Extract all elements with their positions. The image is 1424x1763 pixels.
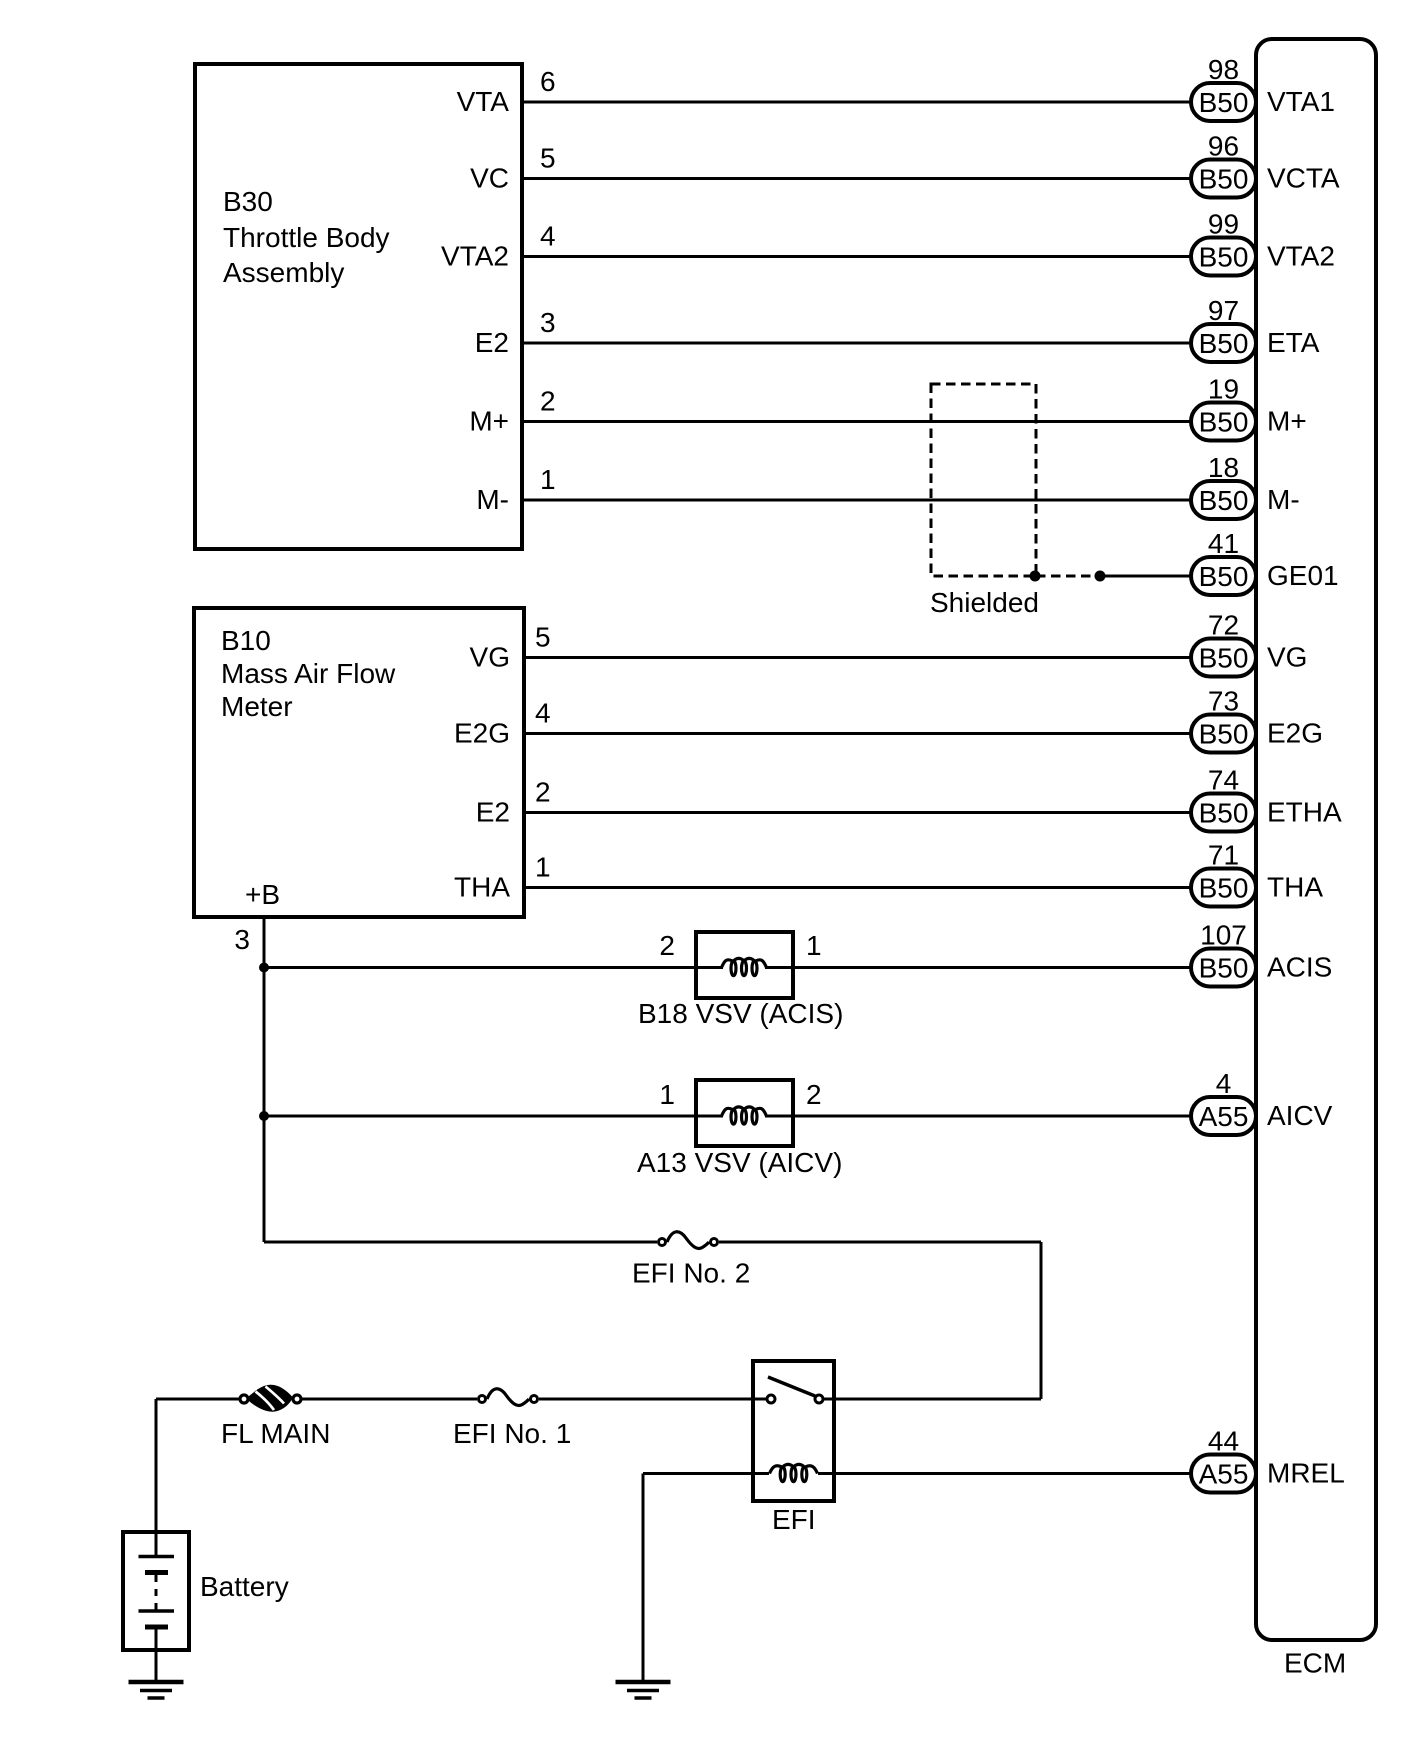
svg-text:ECM: ECM xyxy=(1284,1648,1346,1679)
svg-text:VTA1: VTA1 xyxy=(1267,86,1335,117)
wire B10 THA pin 1 to ECM xyxy=(524,886,1191,889)
svg-text:B10: B10 xyxy=(221,625,271,656)
ECM connector B50 pin 19 (M+) xyxy=(1191,403,1256,441)
ground (battery) xyxy=(129,1680,184,1685)
EFI relay box xyxy=(753,1361,834,1501)
svg-text:96: 96 xyxy=(1208,131,1239,162)
svg-text:B50: B50 xyxy=(1199,561,1249,592)
svg-text:Battery: Battery xyxy=(200,1571,289,1602)
wire B10 VG pin 5 to ECM xyxy=(524,656,1191,659)
wire from +B pin down to EFI No.2 fuse line xyxy=(263,917,266,1242)
ECM connector B50 pin 71 (THA) xyxy=(1191,869,1256,907)
svg-text:6: 6 xyxy=(540,66,556,97)
svg-text:71: 71 xyxy=(1208,840,1239,871)
svg-text:4: 4 xyxy=(1216,1068,1232,1099)
B30 Throttle Body Assembly box xyxy=(195,64,522,549)
ground (EFI relay) xyxy=(616,1680,671,1685)
wire B10 E2G pin 4 to ECM xyxy=(524,732,1191,735)
ECM connector B50 pin 99 (VTA2) xyxy=(1191,238,1256,276)
svg-text:73: 73 xyxy=(1208,686,1239,717)
battery plate short 1 xyxy=(145,1570,168,1575)
svg-text:E2G: E2G xyxy=(454,718,510,749)
svg-text:B50: B50 xyxy=(1199,164,1249,195)
svg-text:EFI No. 1: EFI No. 1 xyxy=(453,1418,571,1449)
svg-text:M+: M+ xyxy=(1267,406,1307,437)
svg-text:VTA2: VTA2 xyxy=(441,241,509,272)
svg-text:107: 107 xyxy=(1200,920,1247,951)
svg-text:2: 2 xyxy=(659,930,675,961)
relay coil xyxy=(770,1466,782,1474)
svg-text:18: 18 xyxy=(1208,452,1239,483)
battery internal wire bottom to ground xyxy=(155,1629,158,1680)
wire FL MAIN to EFI No.1 xyxy=(301,1398,477,1401)
VSV (AICV) A13 box xyxy=(696,1080,793,1146)
svg-text:B50: B50 xyxy=(1199,953,1249,984)
battery dashed middle xyxy=(155,1575,158,1611)
svg-text:B50: B50 xyxy=(1199,242,1249,273)
battery plate long 2 xyxy=(139,1609,175,1613)
svg-text:THA: THA xyxy=(1267,872,1323,903)
svg-text:44: 44 xyxy=(1208,1426,1239,1457)
wire EFI No.1 to relay xyxy=(539,1398,766,1401)
ECM connector B50 pin 18 (M-) xyxy=(1191,481,1256,519)
svg-text:THA: THA xyxy=(454,872,510,903)
svg-text:B50: B50 xyxy=(1199,87,1249,118)
svg-text:Meter: Meter xyxy=(221,691,293,722)
wire GE01 to ECM xyxy=(1100,575,1191,578)
junction dot at shield box corner xyxy=(1030,571,1041,582)
junction dot AICV branch xyxy=(259,1111,269,1121)
svg-text:A55: A55 xyxy=(1199,1459,1249,1490)
svg-text:VTA2: VTA2 xyxy=(1267,241,1335,272)
svg-text:B50: B50 xyxy=(1199,328,1249,359)
svg-text:MREL: MREL xyxy=(1267,1458,1345,1489)
svg-text:B30: B30 xyxy=(223,186,273,217)
svg-text:2: 2 xyxy=(540,386,556,417)
wire B30 VTA pin 6 to ECM xyxy=(522,101,1191,104)
svg-text:4: 4 xyxy=(535,698,551,729)
svg-text:VG: VG xyxy=(470,642,510,673)
wire relay coil to MREL xyxy=(818,1472,1191,1475)
svg-text:5: 5 xyxy=(540,143,556,174)
svg-text:B50: B50 xyxy=(1199,643,1249,674)
ECM connector A55 pin 4 (AICV) xyxy=(1191,1097,1256,1135)
relay switch contact right xyxy=(815,1395,823,1403)
ECM connector A55 pin 44 (MREL) xyxy=(1191,1455,1256,1493)
svg-text:E2: E2 xyxy=(475,327,509,358)
svg-text:ETHA: ETHA xyxy=(1267,797,1342,828)
ECM connector B50 pin 97 (ETA) xyxy=(1191,324,1256,362)
wire relay coil to ground xyxy=(643,1472,769,1475)
svg-text:B50: B50 xyxy=(1199,407,1249,438)
battery plate short 2 xyxy=(145,1625,168,1630)
svg-text:ETA: ETA xyxy=(1267,327,1320,358)
VSV (ACIS) solenoid coil xyxy=(722,960,733,968)
fuse EFI No.1 xyxy=(487,1389,529,1406)
junction dot ACIS branch xyxy=(259,963,269,973)
svg-text:3: 3 xyxy=(234,924,250,955)
ECM connector B50 pin 72 (VG) xyxy=(1191,639,1256,677)
svg-text:99: 99 xyxy=(1208,209,1239,240)
svg-text:VTA: VTA xyxy=(457,86,510,117)
svg-text:M-: M- xyxy=(1267,484,1300,515)
svg-text:72: 72 xyxy=(1208,610,1239,641)
svg-text:Shielded: Shielded xyxy=(930,587,1039,618)
svg-text:1: 1 xyxy=(540,464,556,495)
svg-text:+B: +B xyxy=(245,879,280,910)
wire B30 VTA2 pin 4 to ECM xyxy=(522,255,1191,258)
wire B30 M- pin 1 to ECM xyxy=(522,499,1191,502)
shielded cable dashed box xyxy=(931,384,1036,576)
svg-text:AICV: AICV xyxy=(1267,1100,1333,1131)
ECM connector B50 pin 96 (VCTA) xyxy=(1191,160,1256,198)
ECM box xyxy=(1256,39,1376,1640)
svg-text:GE01: GE01 xyxy=(1267,560,1339,591)
svg-text:1: 1 xyxy=(806,930,822,961)
wire B30 E2 pin 3 to ECM xyxy=(522,342,1191,345)
VSV (AICV) solenoid coil xyxy=(722,1108,733,1116)
svg-text:2: 2 xyxy=(535,777,551,808)
svg-text:Assembly: Assembly xyxy=(223,257,344,288)
svg-text:2: 2 xyxy=(806,1079,822,1110)
ECM connector B50 pin 74 (ETHA) xyxy=(1191,794,1256,832)
svg-text:Mass Air Flow: Mass Air Flow xyxy=(221,658,396,689)
svg-text:VG: VG xyxy=(1267,642,1307,673)
svg-text:Throttle Body: Throttle Body xyxy=(223,222,390,253)
svg-text:1: 1 xyxy=(659,1079,675,1110)
junction dot on GE01 wire xyxy=(1095,571,1106,582)
svg-text:E2G: E2G xyxy=(1267,718,1323,749)
wire battery to FL MAIN xyxy=(156,1398,239,1401)
wire +B line to EFI No.2 fuse xyxy=(264,1241,657,1244)
svg-text:B18 VSV (ACIS): B18 VSV (ACIS) xyxy=(638,998,843,1029)
wire B30 VC pin 5 to ECM xyxy=(522,177,1191,180)
svg-text:97: 97 xyxy=(1208,295,1239,326)
battery internal wire top xyxy=(155,1532,158,1556)
svg-text:A55: A55 xyxy=(1199,1101,1249,1132)
battery plate long 1 xyxy=(139,1555,175,1559)
svg-text:4: 4 xyxy=(540,221,556,252)
fuse EFI No.2 xyxy=(667,1232,709,1249)
svg-text:19: 19 xyxy=(1208,374,1239,405)
svg-text:74: 74 xyxy=(1208,765,1239,796)
ECM connector B50 pin 73 (E2G) xyxy=(1191,715,1256,753)
svg-text:ACIS: ACIS xyxy=(1267,952,1332,983)
svg-text:VCTA: VCTA xyxy=(1267,163,1340,194)
svg-text:B50: B50 xyxy=(1199,798,1249,829)
svg-text:M+: M+ xyxy=(469,406,509,437)
svg-text:A13 VSV (AICV): A13 VSV (AICV) xyxy=(637,1147,842,1178)
relay switch lever xyxy=(768,1377,815,1396)
svg-text:5: 5 xyxy=(535,622,551,653)
ECM connector B50 pin 98 (VTA1) xyxy=(1191,83,1256,121)
ECM connector B50 pin 41 (GE01) xyxy=(1191,557,1256,595)
wire +B branch to VSV (AICV) xyxy=(264,1115,723,1118)
ECM connector B50 pin 107 (ACIS) xyxy=(1191,949,1256,987)
wire B30 M+ pin 2 to ECM xyxy=(522,420,1191,423)
svg-text:VC: VC xyxy=(470,163,509,194)
svg-text:E2: E2 xyxy=(476,797,510,828)
svg-text:B50: B50 xyxy=(1199,873,1249,904)
wire EFI No.2 fuse to relay switch xyxy=(719,1241,1041,1244)
svg-text:3: 3 xyxy=(540,307,556,338)
dashed shield drain wire xyxy=(1036,575,1100,578)
fusible link FL MAIN xyxy=(249,1385,293,1412)
svg-text:EFI No. 2: EFI No. 2 xyxy=(632,1258,750,1289)
svg-text:M-: M- xyxy=(476,484,509,515)
svg-text:B50: B50 xyxy=(1199,485,1249,516)
svg-text:98: 98 xyxy=(1208,54,1239,85)
B10 Mass Air Flow Meter box xyxy=(194,608,524,917)
svg-text:41: 41 xyxy=(1208,528,1239,559)
svg-text:EFI: EFI xyxy=(772,1504,816,1535)
svg-text:B50: B50 xyxy=(1199,719,1249,750)
svg-text:1: 1 xyxy=(535,852,551,883)
wire B10 E2 pin 2 to ECM xyxy=(524,811,1191,814)
svg-text:FL MAIN: FL MAIN xyxy=(221,1418,330,1449)
VSV (ACIS) B18 box xyxy=(696,932,793,998)
relay switch contact left xyxy=(767,1395,775,1403)
battery box xyxy=(123,1532,189,1650)
wire +B branch to VSV (ACIS) xyxy=(264,966,723,969)
